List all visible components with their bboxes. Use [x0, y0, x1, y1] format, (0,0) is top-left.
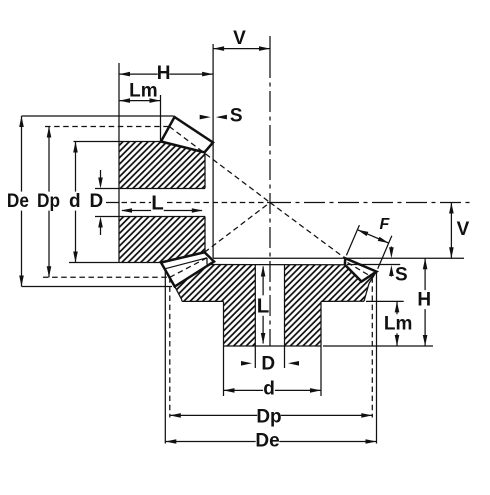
svg-text:V: V — [233, 28, 246, 49]
svg-text:D: D — [90, 191, 104, 212]
svg-text:d: d — [69, 191, 81, 212]
svg-text:S: S — [230, 105, 243, 126]
svg-text:D: D — [261, 354, 275, 375]
svg-text:De: De — [255, 431, 279, 452]
svg-text:L: L — [257, 295, 270, 318]
svg-text:De: De — [7, 191, 29, 212]
svg-text:d: d — [263, 379, 275, 400]
svg-text:S: S — [395, 264, 408, 285]
svg-text:Lm: Lm — [384, 314, 413, 335]
svg-text:V: V — [457, 219, 470, 240]
svg-text:H: H — [157, 63, 171, 84]
svg-text:Lm: Lm — [129, 81, 158, 102]
svg-text:Dp: Dp — [37, 191, 60, 212]
svg-text:L: L — [151, 191, 164, 214]
svg-text:H: H — [417, 290, 431, 311]
svg-text:Dp: Dp — [256, 406, 281, 427]
svg-text:F: F — [380, 216, 391, 233]
